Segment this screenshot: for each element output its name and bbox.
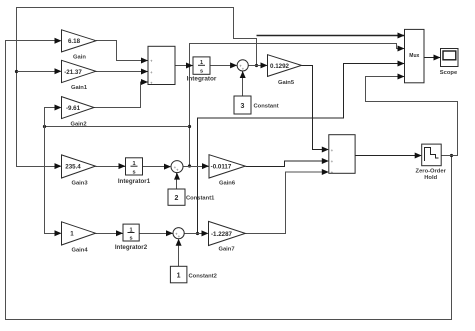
svg-text:Gain4: Gain4 (71, 248, 88, 254)
svg-text:Integrator2: Integrator2 (115, 244, 148, 251)
svg-text:Scope: Scope (440, 70, 458, 76)
svg-text:Gain7: Gain7 (218, 247, 234, 253)
svg-text:3: 3 (241, 103, 245, 110)
arrowhead into Sum circle 1 (230, 62, 237, 68)
junction dot line A branch to Gain2/Gain4 (188, 125, 191, 128)
sum block SumOut (rectangular, 3 inputs) (329, 135, 355, 175)
svg-text:Gain: Gain (73, 55, 86, 61)
wire state2 vertical tap line A (from Sum2 output wire up to Mux input 2) (190, 44, 405, 167)
svg-text:+: + (150, 59, 153, 64)
svg-text:+: + (176, 168, 179, 173)
wire left rail to Gain1 input (17, 71, 61, 73)
sum junction Sum circle 1 (237, 60, 248, 72)
svg-text:235.4: 235.4 (65, 164, 81, 171)
gain block Gain6 (-0.0117) (209, 155, 245, 178)
svg-text:Integrator: Integrator (187, 76, 217, 83)
arrowhead into Mux input 4 (398, 74, 405, 80)
svg-text:Gain1: Gain1 (71, 85, 88, 91)
arrowhead into Sum circle 3 (166, 230, 173, 236)
junction dot left rail to Gain1 (15, 70, 18, 73)
wire Integrator1 output to Sum circle 2 (143, 166, 171, 168)
arrowhead into Mux input 1 (398, 33, 405, 39)
zero-order hold block (422, 144, 442, 166)
label Gain4 (71, 248, 88, 254)
label Gain5 (278, 80, 295, 86)
arrowhead Constant1 into Sum circle 2 (up) (174, 173, 180, 180)
svg-text:Integrator1: Integrator1 (118, 178, 151, 185)
wire Gain7 output to SumOut input 3 (246, 172, 329, 234)
constant block Constant (3) (234, 96, 251, 114)
gain block Gain1 (-21.37) (62, 60, 96, 82)
integrator block Integrator1 (1/s) (126, 158, 143, 176)
arrowhead into SumOut input 3 (322, 169, 329, 175)
arrowhead into SumOut input 1 (322, 147, 329, 153)
svg-text:-21.37: -21.37 (64, 69, 82, 76)
label Gain1 (71, 85, 88, 91)
label Integrator2 (115, 244, 148, 251)
wire Constant1 up to Sum circle 2 (176, 173, 178, 189)
wire Constant2 up to Sum circle 3 (178, 240, 180, 267)
arrowhead into Zero-Order Hold (415, 153, 422, 159)
integrator block Integrator (1/s) (193, 57, 210, 75)
arrowhead into Sum1 input 2 (141, 69, 148, 75)
arrowhead into Mux input 2 (398, 46, 405, 52)
svg-text:2: 2 (175, 195, 179, 202)
svg-text:+: + (178, 234, 181, 239)
svg-text:Gain6: Gain6 (219, 181, 236, 187)
arrowhead into Gain2 (55, 105, 62, 111)
svg-text:Constant: Constant (254, 104, 279, 110)
svg-text:+: + (331, 148, 334, 153)
junction dot on ZOH output wire (450, 154, 453, 157)
svg-text:Zero-Order: Zero-Order (416, 169, 447, 175)
sum junction Sum circle 2 (171, 161, 183, 173)
sum block Sum1 (rectangular, 3 inputs) (148, 46, 175, 85)
arrowhead Constant2 into Sum circle 3 (up) (176, 239, 182, 246)
svg-text:+: + (242, 66, 245, 71)
svg-text:s: s (200, 69, 203, 75)
junction dot state1 tap (255, 64, 258, 67)
arrowhead into Integrator (186, 63, 193, 69)
gain block Gain5 (0.1292) (268, 55, 302, 77)
wire Constant up to Sum circle 1 (242, 72, 244, 97)
svg-text:Gain3: Gain3 (71, 181, 88, 187)
svg-text:s: s (132, 169, 135, 175)
arrowhead into SumOut input 2 (322, 158, 329, 164)
junction dot state2 tap (188, 164, 191, 167)
integrator block Integrator2 (1/s) (123, 224, 139, 242)
label Constant2 (189, 274, 217, 280)
svg-text:-0.0117: -0.0117 (211, 164, 232, 171)
wire Sum1 output to Integrator (175, 65, 193, 67)
arrowhead into Sum circle 2 (164, 164, 171, 170)
wire Sum circle 2 output to Gain6 (184, 166, 209, 168)
svg-text:0.1292: 0.1292 (270, 63, 289, 70)
wire x=44 rail up to Gain2 input (45, 108, 61, 127)
gain block Gain3 (235.4) (62, 155, 96, 178)
wire Gain5 output down to SumOut input 1 (302, 66, 329, 150)
wire Sum circle 1 output to Gain5 (249, 65, 268, 67)
svg-text:Gain2: Gain2 (70, 122, 86, 128)
mux block Mux (405, 29, 425, 82)
svg-text:Hold: Hold (424, 175, 437, 181)
arrowhead into Integrator2 (116, 230, 123, 236)
arrowhead Constant into Sum circle 1 (up) (240, 71, 246, 78)
wire Gain6 output to SumOut input 2 (246, 161, 329, 167)
label Gain6 (219, 181, 236, 187)
arrowhead into Integrator1 (119, 163, 126, 169)
arrowhead into Gain7 (202, 230, 209, 236)
arrowhead into Gain (55, 38, 62, 44)
arrowhead into Gain5 (261, 62, 268, 68)
svg-text:6.18: 6.18 (68, 38, 81, 45)
wire Integrator2 output to Sum circle 3 (139, 233, 173, 235)
constant block Constant1 (2) (168, 189, 185, 205)
svg-text:-1.2287: -1.2287 (211, 231, 233, 238)
arrowhead into Gain1 (55, 68, 62, 74)
wire state3 vertical tap line B (from Sum3 output wire up, over to Mux input 3) (198, 64, 405, 234)
arrowhead into Sum1 input 3 (141, 79, 148, 85)
wire x=44 rail down to Gain4 input (45, 127, 61, 234)
svg-text:Constant2: Constant2 (189, 274, 217, 280)
wire state1 tap to Mux input 1 (257, 35, 405, 37)
arrowhead into Gain3 (55, 163, 62, 169)
wire SumOut output to Zero-Order Hold (355, 155, 421, 157)
svg-text:1: 1 (177, 273, 181, 280)
junction dot x=44 rail (43, 125, 46, 128)
gain block Gain4 (1) (62, 222, 96, 245)
wire state1 feedback (tap after Sum circle 1, up and around top to left rail) (17, 8, 257, 167)
arrowhead into Scope (434, 55, 441, 61)
svg-text:+: + (331, 159, 334, 164)
label Gain7 (218, 247, 234, 253)
svg-text:+: + (150, 70, 153, 75)
label Gain3 (71, 181, 88, 187)
wire Mux output to Scope (424, 57, 440, 59)
arrowhead into Gain6 (202, 163, 209, 169)
svg-text:1: 1 (70, 231, 74, 238)
svg-text:Constant1: Constant1 (186, 196, 215, 202)
label Constant (254, 104, 279, 110)
svg-text:+: + (331, 170, 334, 175)
label Integrator1 (118, 178, 151, 185)
sum junction Sum circle 3 (173, 228, 184, 240)
label Gain (73, 55, 86, 61)
wire Gain1 output to Sum1 input 2 (96, 71, 148, 73)
svg-text:-9.61: -9.61 (66, 105, 81, 112)
constant block Constant2 (1) (170, 266, 187, 283)
svg-text:Gain5: Gain5 (278, 80, 295, 86)
label Constant1 (186, 196, 215, 202)
label Integrator (187, 76, 217, 83)
scope block Scope (441, 49, 459, 67)
label Gain2 (70, 122, 86, 128)
gain block Gain7 (-1.2287) (209, 221, 246, 245)
wire Gain output to Sum1 input 1 (96, 41, 148, 61)
svg-text:Mux: Mux (409, 53, 419, 59)
label Scope (440, 70, 458, 76)
arrowhead into Mux input 3 (398, 61, 405, 67)
wire ZOH output up to Mux input 4 (366, 77, 458, 156)
gain block Gain2 (-9.61) (62, 97, 95, 119)
svg-text:s: s (129, 236, 132, 242)
wire state2 branch to left rail x=44 (45, 126, 190, 128)
gain block Gain (6.18) (62, 30, 97, 52)
svg-text:+: + (150, 81, 153, 86)
wire Gain4 output to Integrator2 (96, 233, 123, 235)
arrowhead into Sum1 input 1 (141, 58, 148, 64)
wire Gain3 output to Integrator1 (96, 166, 126, 168)
label Zero-Order Hold (416, 169, 447, 181)
wire Sum circle 3 output to Gain7 (184, 233, 208, 235)
wire Gain2 output to Sum1 input 3 (94, 82, 148, 108)
arrowhead into Gain4 (55, 230, 62, 236)
junction dot state3 tap (196, 232, 199, 235)
wire Integrator output to Sum circle 1 (210, 65, 237, 67)
wire output feedback loop (ZOH output to Gain input, around left and bottom) (6, 41, 452, 320)
